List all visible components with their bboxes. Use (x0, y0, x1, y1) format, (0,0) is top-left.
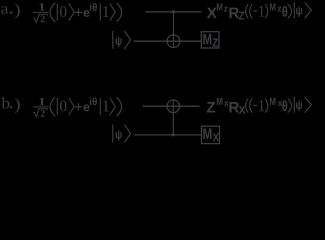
measurement box M_Z (201, 32, 219, 48)
radical vinculum (39, 109, 48, 110)
argument paren ( 1st (246, 4, 249, 18)
digit 1 of (-1) (259, 100, 264, 111)
control dot b (172, 133, 175, 136)
box subscript X (213, 133, 219, 141)
superscript i (90, 3, 91, 10)
subscript X (239, 106, 246, 114)
ket 1 digit (103, 6, 109, 17)
control dot a (172, 10, 175, 13)
exponent M (270, 3, 276, 10)
big left parenthesis (50, 97, 55, 116)
argument paren ( 1st (246, 99, 249, 113)
wire b top (143, 105, 200, 107)
theta argument (282, 6, 287, 17)
superscript M (217, 98, 223, 105)
wire b bottom (134, 134, 202, 136)
ket |0> angle bracket (69, 4, 74, 21)
ket |1> bar (99, 4, 101, 21)
CNOT target b (167, 100, 180, 113)
psi glyph output (296, 7, 302, 17)
minus sign (253, 10, 257, 12)
ket |1> angle bracket (110, 98, 115, 115)
fraction bar (33, 11, 49, 13)
CNOT target a (167, 35, 180, 48)
output ket bar (293, 97, 295, 113)
superscript theta (93, 3, 97, 11)
argument paren ( 2nd (250, 4, 253, 18)
radical vinculum (39, 14, 48, 15)
argument paren ) (265, 4, 268, 18)
radical sign (33, 14, 40, 23)
control vertical line a (173, 12, 175, 48)
ket |0> bar (56, 98, 58, 115)
radicand 2 (41, 110, 45, 117)
ket |psi> input bar (112, 125, 114, 143)
superscript theta (93, 97, 97, 105)
output ket bar (293, 2, 295, 18)
subscript Z (239, 12, 245, 20)
exponent M (270, 98, 276, 105)
big left parenthesis (50, 3, 55, 22)
rotation operator R (229, 8, 239, 18)
plus sign (75, 103, 82, 110)
superscript z (224, 7, 228, 12)
box subscript Z (213, 38, 218, 46)
e (84, 10, 90, 17)
argument paren ) (265, 99, 268, 113)
box letter M (Z basis) (203, 34, 211, 44)
argument paren ( 2nd (250, 99, 253, 113)
plus sign (75, 9, 82, 16)
label a.) letter (1, 6, 8, 14)
superscript M (217, 3, 223, 10)
e (84, 104, 90, 111)
psi glyph input (116, 37, 122, 47)
theta argument (282, 100, 287, 111)
fraction numerator 1 (39, 3, 44, 10)
wire a top (146, 11, 202, 13)
output ket angle bracket (305, 97, 312, 113)
ket |psi> input bar (112, 31, 114, 49)
ket 0 digit (60, 6, 67, 17)
ket |1> bar (99, 98, 101, 115)
rotation operator R (229, 102, 239, 112)
argument closing paren ) (288, 4, 292, 18)
wire a bottom (134, 40, 201, 42)
exponent x (278, 101, 283, 106)
exponent z (278, 7, 282, 12)
ket |1> angle bracket (110, 4, 115, 21)
control vertical line b (172, 100, 174, 135)
radical sign (33, 108, 40, 117)
argument closing paren ) (288, 99, 292, 113)
superscript x (224, 101, 229, 106)
big right parenthesis (117, 3, 122, 22)
fraction numerator 1 (39, 98, 44, 105)
ket 0 digit (60, 100, 67, 111)
minus sign (253, 104, 257, 106)
output operator Z (207, 102, 215, 112)
ket |0> bar (56, 4, 58, 21)
radicand 2 (41, 16, 45, 23)
big right parenthesis (117, 97, 122, 116)
ket 1 digit (103, 101, 109, 112)
superscript i (90, 98, 91, 105)
psi glyph input (116, 131, 122, 141)
label b.) letter (1, 97, 9, 108)
output ket angle bracket (305, 2, 312, 18)
box letter M (X basis) (203, 129, 211, 140)
fraction bar (33, 106, 49, 108)
digit 1 of (-1) (259, 6, 264, 17)
measurement box M_X (202, 126, 220, 143)
output operator X (207, 8, 217, 18)
psi glyph output (296, 101, 302, 111)
ket |0> angle bracket (69, 98, 74, 115)
ket |psi> input angle bracket (124, 31, 130, 49)
ket |psi> input angle bracket (124, 125, 130, 143)
